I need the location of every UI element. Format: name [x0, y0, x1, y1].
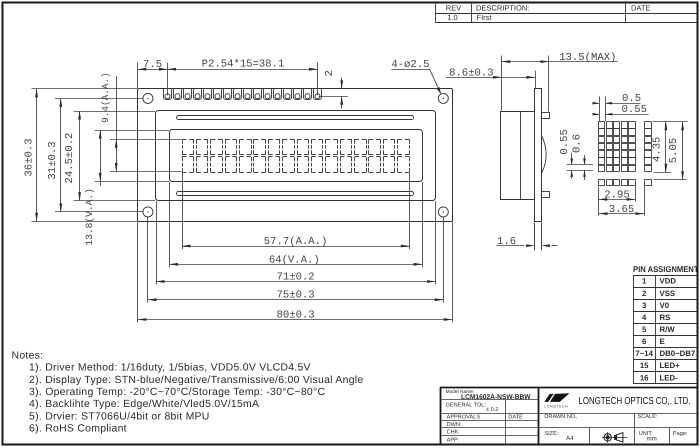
- svg-text:4). Backlihte Type: Edge/White: 4). Backlihte Type: Edge/White/Vled5.0V/…: [29, 399, 259, 410]
- svg-text:6: 6: [642, 337, 647, 346]
- svg-text:7.5: 7.5: [143, 59, 162, 71]
- svg-text:DESCRIPTION:: DESCRIPTION:: [476, 3, 529, 12]
- svg-text:6). RoHS Compliant: 6). RoHS Compliant: [29, 424, 127, 435]
- svg-text:5.05: 5.05: [668, 138, 680, 163]
- svg-text:0.55: 0.55: [622, 104, 647, 116]
- svg-text:APP:: APP:: [447, 438, 460, 444]
- svg-text:E: E: [660, 337, 665, 346]
- svg-text:0.55: 0.55: [559, 129, 571, 154]
- svg-text:71±0.2: 71±0.2: [277, 272, 315, 284]
- svg-text:LONGTECH: LONGTECH: [545, 404, 569, 408]
- svg-text:± 0.2: ± 0.2: [486, 407, 498, 413]
- svg-text:VSS: VSS: [660, 289, 676, 298]
- svg-text:Notes:: Notes:: [12, 351, 44, 362]
- svg-text:36±0.3: 36±0.3: [24, 138, 36, 176]
- svg-text:mm: mm: [647, 436, 657, 443]
- svg-text:Page:: Page:: [673, 431, 688, 437]
- svg-text:4.35: 4.35: [651, 137, 663, 162]
- svg-text:A4: A4: [566, 435, 574, 442]
- svg-text:7~14: 7~14: [635, 349, 653, 358]
- svg-text:3: 3: [642, 301, 647, 310]
- svg-text:RS: RS: [660, 313, 671, 322]
- svg-text:P2.54*15=38.1: P2.54*15=38.1: [202, 58, 285, 70]
- svg-text:LCM1602A-NSW-BBW: LCM1602A-NSW-BBW: [461, 394, 531, 401]
- svg-text:SCALE:: SCALE:: [638, 414, 658, 420]
- svg-text:LONGTECH OPTICS CO,. LTD.: LONGTECH OPTICS CO,. LTD.: [579, 396, 691, 407]
- svg-text:16: 16: [640, 373, 649, 382]
- svg-text:GENERAL TOL:: GENERAL TOL:: [446, 403, 487, 409]
- svg-text:DB0~DB7: DB0~DB7: [660, 349, 696, 358]
- svg-text:2.95: 2.95: [604, 190, 629, 202]
- svg-text:3.65: 3.65: [609, 204, 634, 216]
- svg-text:1: 1: [642, 277, 647, 286]
- svg-text:9.4(A.A.): 9.4(A.A.): [100, 72, 111, 123]
- svg-text:13.5(MAX): 13.5(MAX): [559, 52, 616, 64]
- svg-text:1). Driver Method: 1/16duty, 1: 1). Driver Method: 1/16duty, 1/5bias, VD…: [29, 363, 311, 374]
- svg-text:DRAWN NO,: DRAWN NO,: [544, 414, 577, 420]
- svg-text:1.6: 1.6: [497, 236, 516, 248]
- svg-text:1.0: 1.0: [447, 13, 457, 22]
- svg-text:80±0.3: 80±0.3: [277, 310, 315, 322]
- svg-text:2: 2: [324, 70, 336, 76]
- svg-text:DATE: DATE: [508, 415, 523, 421]
- svg-text:3). Operating Temp: -20°C~70°C: 3). Operating Temp: -20°C~70°C/Storage T…: [29, 387, 325, 398]
- svg-text:REV: REV: [446, 3, 461, 12]
- svg-text:24.5±0.2: 24.5±0.2: [64, 133, 76, 184]
- svg-text:2: 2: [642, 289, 647, 298]
- svg-text:VDD: VDD: [660, 277, 677, 286]
- svg-text:CHK:: CHK:: [447, 430, 461, 436]
- svg-text:APPROVALS: APPROVALS: [447, 415, 481, 421]
- svg-text:2). Display Type: STN-blue/Neg: 2). Display Type: STN-blue/Negative/Tran…: [29, 375, 363, 386]
- svg-text:75±0.3: 75±0.3: [277, 290, 315, 302]
- svg-text:DATE: DATE: [631, 3, 650, 12]
- svg-text:SIZE:: SIZE:: [544, 431, 558, 437]
- svg-text:PIN ASSIGNMENT: PIN ASSIGNMENT: [633, 264, 699, 274]
- svg-text:5). Drvier: ST7066U/4bit or 8b: 5). Drvier: ST7066U/4bit or 8bit MPU: [29, 411, 210, 422]
- svg-text:31±0.3: 31±0.3: [47, 141, 59, 179]
- svg-text:4: 4: [642, 313, 647, 322]
- svg-text:V0: V0: [660, 301, 670, 310]
- svg-text:13.8(V.A.): 13.8(V.A.): [84, 188, 95, 246]
- svg-text:LED-: LED-: [660, 373, 679, 382]
- svg-text:0.6: 0.6: [571, 134, 583, 153]
- svg-text:15: 15: [640, 361, 649, 370]
- svg-text:64(V.A.): 64(V.A.): [269, 254, 320, 266]
- svg-text:FIrst: FIrst: [477, 13, 493, 22]
- svg-text:DWN:: DWN:: [447, 422, 462, 428]
- svg-text:5: 5: [642, 325, 647, 334]
- svg-text:LED+: LED+: [660, 361, 681, 370]
- svg-text:R/W: R/W: [660, 325, 676, 334]
- svg-text:57.7(A.A.): 57.7(A.A.): [264, 236, 328, 248]
